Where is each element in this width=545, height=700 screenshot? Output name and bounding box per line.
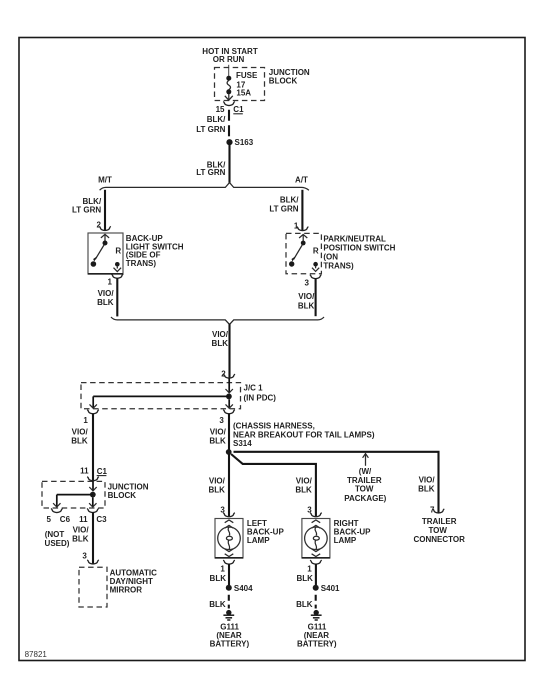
svg-text:CONNECTOR: CONNECTOR xyxy=(413,535,465,544)
svg-text:VIO/: VIO/ xyxy=(72,428,89,437)
svg-text:LT GRN: LT GRN xyxy=(72,205,101,214)
connector C6 pin 5 xyxy=(47,509,71,524)
svg-text:NEAR BREAKOUT FOR TAIL LAMPS): NEAR BREAKOUT FOR TAIL LAMPS) xyxy=(233,431,375,440)
svg-text:LT GRN: LT GRN xyxy=(196,168,225,177)
wire label BLK/LT GRN xyxy=(196,161,226,177)
svg-text:BLK/: BLK/ xyxy=(207,115,226,124)
svg-text:S163: S163 xyxy=(235,138,254,147)
label J/C 1 (IN PDC) xyxy=(244,384,277,403)
svg-text:TOW: TOW xyxy=(428,526,447,535)
label JUNCTION BLOCK xyxy=(269,68,310,85)
svg-text:USED): USED) xyxy=(45,539,70,548)
svg-text:BLK: BLK xyxy=(418,485,435,494)
park/neutral position switch contacts xyxy=(289,234,319,271)
wire label BLK/LT GRN xyxy=(72,197,102,214)
splice S314 xyxy=(226,449,232,455)
svg-text:S314: S314 xyxy=(233,439,252,448)
right back-up lamp box xyxy=(302,519,330,559)
wire BLK/LT GRN xyxy=(228,142,230,183)
wire feed into junction block xyxy=(228,65,230,77)
label (W/ TRAILER TOW PACKAGE) xyxy=(344,467,386,503)
wire to trailer tow connector xyxy=(234,452,439,513)
svg-text:(CHASSIS HARNESS,: (CHASSIS HARNESS, xyxy=(233,422,315,431)
svg-text:TOW: TOW xyxy=(355,485,374,494)
junction connector J/C 1 dashed box xyxy=(81,383,241,409)
connector pin 3 xyxy=(88,561,97,564)
svg-text:3: 3 xyxy=(82,552,87,561)
connector C1 pin 11 xyxy=(80,467,107,481)
svg-text:PARK/NEUTRAL: PARK/NEUTRAL xyxy=(323,235,386,244)
label RIGHT BACK-UP LAMP xyxy=(334,519,372,545)
svg-text:M/T: M/T xyxy=(98,175,112,184)
wire BLK xyxy=(315,564,317,585)
svg-text:R: R xyxy=(115,247,121,256)
wire label VIO/BLK xyxy=(295,477,312,495)
label PARK/NEUTRAL POSITION SWITCH (ON TRANS) xyxy=(323,235,395,271)
ground G111 xyxy=(311,610,322,620)
svg-text:LT GRN: LT GRN xyxy=(196,125,225,134)
label G111 (NEAR BATTERY) xyxy=(210,623,250,649)
svg-text:S404: S404 xyxy=(234,584,253,593)
label LEFT BACK-UP LAMP xyxy=(247,519,285,545)
svg-text:TRANS): TRANS) xyxy=(126,259,157,268)
wire label VIO/BLK xyxy=(212,330,229,348)
connector pin 1 xyxy=(113,276,122,279)
junction block dashed box xyxy=(42,481,105,508)
svg-text:PACKAGE): PACKAGE) xyxy=(344,494,386,503)
splice S163 xyxy=(226,138,253,147)
automatic day/night mirror dashed box xyxy=(79,567,107,607)
svg-text:3: 3 xyxy=(220,505,225,514)
svg-text:C6: C6 xyxy=(60,515,71,524)
svg-text:VIO/: VIO/ xyxy=(209,477,226,486)
arrow (W/ TRAILER TOW PACKAGE) xyxy=(363,454,369,466)
svg-text:(IN PDC): (IN PDC) xyxy=(244,393,277,402)
connector pin 1 xyxy=(298,228,307,231)
connector pin 1 xyxy=(88,411,97,414)
fuse value label FUSE 17 15A xyxy=(236,71,258,97)
wire to right back-up lamp xyxy=(231,454,316,516)
svg-text:BLK/: BLK/ xyxy=(280,196,299,205)
svg-text:POSITION SWITCH: POSITION SWITCH xyxy=(323,244,395,253)
junction block (fuse) dashed box xyxy=(215,68,265,101)
svg-text:BLK: BLK xyxy=(209,600,226,609)
svg-text:BLK: BLK xyxy=(71,437,88,446)
back-up light switch contacts xyxy=(91,234,122,271)
svg-text:1: 1 xyxy=(83,416,88,425)
wire BLK/LT GRN (dashed) xyxy=(228,105,230,138)
svg-text:MIRROR: MIRROR xyxy=(110,586,143,595)
label JUNCTION BLOCK xyxy=(108,482,149,500)
left back-up lamp symbol xyxy=(218,520,241,557)
label G111 (NEAR BATTERY) xyxy=(297,623,337,649)
connector C3 pin 11 xyxy=(79,509,107,524)
wire VIO/BLK to junction block xyxy=(92,414,94,481)
left back-up lamp box xyxy=(215,519,243,559)
connector pin 2 xyxy=(100,228,109,231)
connector pin 2 xyxy=(225,375,234,378)
svg-text:BLK: BLK xyxy=(212,339,229,348)
label TRAILER TOW CONNECTOR xyxy=(413,517,465,544)
connector C1 pin 15 xyxy=(216,102,244,115)
svg-text:BLK: BLK xyxy=(210,574,227,583)
connector pin 3 xyxy=(311,514,320,517)
svg-text:LT GRN: LT GRN xyxy=(269,205,298,214)
svg-text:A/T: A/T xyxy=(295,175,308,184)
svg-text:3: 3 xyxy=(307,505,312,514)
svg-text:TRANS): TRANS) xyxy=(323,261,354,270)
svg-text:TRAILER: TRAILER xyxy=(347,476,382,485)
svg-text:VIO/: VIO/ xyxy=(210,428,227,437)
splice S404 xyxy=(226,584,253,593)
wire BLK (dashed) xyxy=(228,591,230,609)
wire VIO/BLK xyxy=(315,278,317,316)
svg-text:1: 1 xyxy=(220,565,225,574)
wire A/T branch BLK/LT GRN xyxy=(301,190,303,230)
J/C 1 internal wiring xyxy=(90,378,233,408)
svg-text:1: 1 xyxy=(307,565,312,574)
label BACK-UP LIGHT SWITCH (SIDE OF TRANS) xyxy=(126,234,184,268)
wire VIO/BLK to S314 xyxy=(228,414,230,453)
wire BLK (dashed) xyxy=(315,591,317,609)
ground G111 xyxy=(223,610,234,620)
svg-text:BLK: BLK xyxy=(208,486,225,495)
svg-text:BATTERY): BATTERY) xyxy=(297,639,337,648)
svg-text:J/C 1: J/C 1 xyxy=(244,384,264,393)
wire BLK xyxy=(228,564,230,585)
svg-text:BATTERY): BATTERY) xyxy=(210,639,250,648)
svg-text:VIO/: VIO/ xyxy=(419,476,436,485)
svg-text:BLK: BLK xyxy=(295,486,312,495)
wire label BLK/LT GRN xyxy=(269,196,299,214)
wire label VIO/BLK xyxy=(71,428,88,446)
svg-text:87821: 87821 xyxy=(25,650,48,659)
right back-up lamp symbol xyxy=(305,520,328,557)
back-up light switch box xyxy=(88,233,123,274)
svg-text:VIO/: VIO/ xyxy=(212,330,229,339)
fuse 17 xyxy=(225,76,233,101)
svg-text:FUSE: FUSE xyxy=(236,71,258,80)
svg-text:C1: C1 xyxy=(233,105,244,114)
svg-text:BLK: BLK xyxy=(72,535,89,544)
svg-text:15A: 15A xyxy=(236,89,251,98)
svg-text:5: 5 xyxy=(47,515,52,524)
svg-text:VIO/: VIO/ xyxy=(73,526,90,535)
label AUTOMATIC DAY/NIGHT MIRROR xyxy=(110,569,157,595)
wire VIO/BLK xyxy=(228,324,230,378)
svg-text:BLK: BLK xyxy=(298,301,315,310)
connector pin 1 xyxy=(224,561,233,564)
wire VIO/BLK to mirror xyxy=(92,512,94,563)
splice S401 xyxy=(313,584,340,593)
wire label VIO/BLK xyxy=(208,477,225,495)
svg-text:LAMP: LAMP xyxy=(247,536,270,545)
svg-text:BLOCK: BLOCK xyxy=(108,491,137,500)
wire label BLK/LT GRN xyxy=(196,115,226,134)
connector pin 1 xyxy=(311,561,320,564)
svg-text:C3: C3 xyxy=(96,515,107,524)
svg-text:VIO/: VIO/ xyxy=(98,289,115,298)
wire label VIO/BLK xyxy=(72,526,89,544)
wire M/T branch BLK/LT GRN xyxy=(104,190,106,230)
node HOT IN START OR RUN xyxy=(202,47,258,64)
svg-text:11: 11 xyxy=(79,515,88,524)
svg-text:15: 15 xyxy=(216,105,225,114)
svg-text:BLK: BLK xyxy=(296,574,313,583)
label (NOT USED) xyxy=(45,530,70,548)
wire label VIO/BLK xyxy=(418,476,435,494)
junction block internal wiring xyxy=(53,481,97,508)
svg-text:VIO/: VIO/ xyxy=(296,477,313,486)
connector pin 3 xyxy=(224,411,233,414)
label (CHASSIS HARNESS, NEAR BREAKOUT FOR TAIL LAMPS) S314 xyxy=(233,422,375,448)
svg-text:S401: S401 xyxy=(321,584,340,593)
wire to left back-up lamp xyxy=(228,454,230,516)
brace merge M/T and A/T xyxy=(111,317,324,324)
connector pin 7 xyxy=(434,510,443,513)
brace split to M/T and A/T xyxy=(100,183,309,191)
park/neutral position switch box (dashed) xyxy=(286,233,321,273)
wire label VIO/BLK xyxy=(209,428,226,446)
svg-text:VIO/: VIO/ xyxy=(298,292,315,301)
svg-text:BLOCK: BLOCK xyxy=(269,76,298,85)
svg-text:(W/: (W/ xyxy=(359,467,372,476)
svg-text:3: 3 xyxy=(219,416,224,425)
svg-text:LAMP: LAMP xyxy=(334,536,357,545)
svg-text:BLK: BLK xyxy=(209,437,226,446)
svg-text:3: 3 xyxy=(304,278,309,287)
svg-text:C1: C1 xyxy=(97,467,108,476)
wire label VIO/BLK xyxy=(97,289,114,307)
svg-text:(NOT: (NOT xyxy=(45,530,65,539)
wire label VIO/BLK xyxy=(298,292,315,310)
svg-text:BLK: BLK xyxy=(296,600,313,609)
svg-text:1: 1 xyxy=(108,277,113,286)
svg-text:BLK: BLK xyxy=(97,298,114,307)
connector pin 3 xyxy=(311,276,320,279)
svg-text:TRAILER: TRAILER xyxy=(422,517,457,526)
connector pin 3 xyxy=(224,514,233,517)
wire VIO/BLK xyxy=(116,278,118,316)
svg-text:11: 11 xyxy=(80,467,89,476)
svg-text:R: R xyxy=(313,247,319,256)
svg-text:OR RUN: OR RUN xyxy=(213,55,245,64)
